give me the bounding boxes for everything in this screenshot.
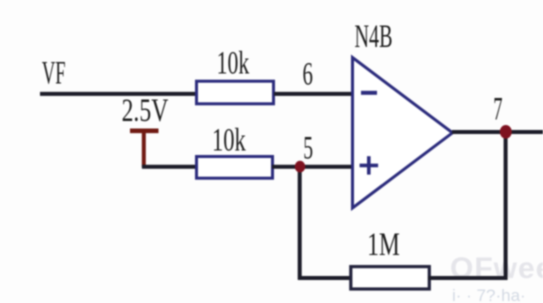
junction node A (pin 5 / feedback) (295, 161, 305, 173)
svg-text:10k: 10k (217, 46, 250, 82)
op-amp inverting input marker (-) (361, 91, 377, 95)
svg-text:6: 6 (303, 56, 313, 92)
svg-text:OFweek: OFweek (450, 252, 543, 285)
wire W5: R2 pin2 to op-amp non-inverting input (272, 165, 353, 169)
svg-text:5: 5 (303, 131, 313, 167)
wire W6: node A down to feedback bottom rail (298, 165, 302, 280)
wire W1: VF input to R1 pin1 (40, 92, 197, 96)
svg-text:VF: VF (42, 56, 66, 92)
svg-text:N4B: N4B (355, 19, 393, 55)
junction node B (output pin 7) (500, 125, 512, 139)
svg-text:i· · 7?·ha·: i· · 7?·ha· (452, 286, 526, 303)
svg-text:10k: 10k (212, 122, 246, 158)
wire W7: bottom rail left segment to R3 pin1 (298, 276, 352, 280)
wire W8: R3 pin2 to output branch (428, 276, 507, 280)
svg-text:2.5V: 2.5V (122, 93, 169, 129)
wire W10: op-amp output to right edge (452, 130, 543, 134)
svg-text:7: 7 (493, 92, 502, 128)
wire W3: 2.5V rail stem down (142, 131, 146, 167)
resistor R1 body (10k) (197, 81, 274, 104)
svg-text:1M: 1M (367, 227, 400, 263)
op-amp U1 N4B triangle (353, 58, 453, 209)
op-amp non-inverting input marker (+) (360, 156, 379, 174)
wire W4: 2.5V node to R2 pin1 (142, 165, 197, 169)
wire W2: R1 pin2 to op-amp inverting input (274, 92, 353, 96)
resistor R3 body (1M) (351, 267, 430, 289)
wire W9: output branch vertical (504, 131, 508, 280)
power symbol 2.5V rail bar (130, 129, 159, 134)
resistor R2 body (10k) (197, 157, 273, 179)
